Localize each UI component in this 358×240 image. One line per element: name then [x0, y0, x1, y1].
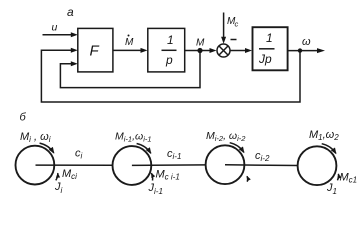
svg-text:1: 1: [167, 33, 174, 47]
mass J_i disc: [16, 146, 55, 185]
wire 1/p to summing junction: [185, 50, 211, 52]
svg-text:c: c: [235, 20, 239, 29]
rotation arrow on mass J_i: [40, 143, 54, 153]
rotation arrow on mass J_1: [322, 144, 336, 154]
svg-text:Jp: Jp: [258, 52, 272, 66]
minus sign: [231, 39, 237, 41]
block F: [78, 28, 113, 72]
block 1/p: [148, 28, 185, 72]
block 1/Jp: [253, 27, 288, 70]
svg-text:p: p: [165, 53, 173, 67]
torque arrow on mass J_i: [56, 173, 58, 180]
node M: [197, 48, 202, 53]
svg-text:a: a: [67, 5, 74, 19]
mass J_i-1 disc: [112, 146, 151, 185]
svg-text:б: б: [20, 112, 27, 124]
wire u input: [43, 34, 73, 36]
svg-text:1: 1: [266, 31, 273, 45]
mass J_1 disc: [298, 146, 337, 185]
rotation arrow on mass J_i-1: [137, 144, 151, 154]
wire Mc input: [223, 13, 225, 39]
svg-text:M: M: [125, 37, 134, 48]
torque arrow on mass J_i-1: [151, 173, 152, 180]
svg-text:u: u: [52, 22, 58, 34]
shaft c_i-1 wire: [132, 164, 206, 167]
torque arrow on mass J_1: [337, 174, 338, 180]
shaft c_i-2 wire: [225, 164, 298, 167]
svg-text:F: F: [90, 43, 100, 60]
svg-text:Mi , ωi: Mi , ωi: [20, 131, 51, 144]
wire F to 1/p: [113, 49, 142, 51]
feedback wire from omega to F input 2: [41, 50, 300, 102]
feedback wire from node M to F input 3: [60, 52, 200, 88]
svg-text:M: M: [196, 38, 205, 49]
node omega: [298, 48, 302, 52]
svg-text:ω: ω: [302, 36, 311, 48]
torque arrow on mass J_i-2: [246, 176, 249, 182]
summing junction: [217, 44, 230, 57]
mass J_i-2 disc: [206, 145, 245, 184]
rotation arrow on mass J_i-2: [230, 143, 244, 153]
wire summing junction to 1/Jp: [230, 50, 246, 52]
shaft c_i wire: [36, 164, 113, 166]
wire 1/Jp to omega output: [288, 50, 318, 52]
